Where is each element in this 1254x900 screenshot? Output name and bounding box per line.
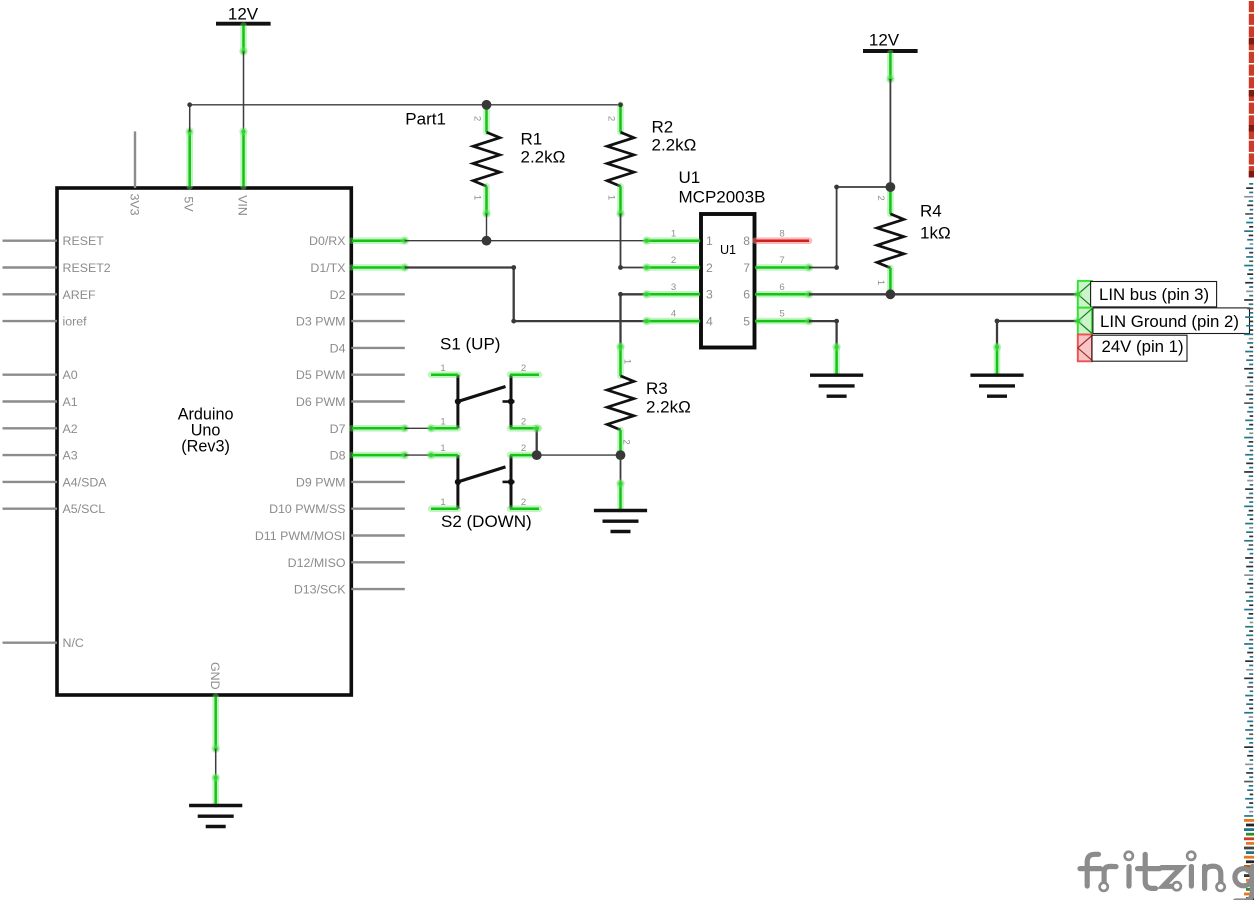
svg-text:D8: D8 — [330, 449, 346, 463]
node LIN Ground flag (pin 2) — [1074, 308, 1250, 335]
svg-text:RESET2: RESET2 — [63, 261, 111, 275]
svg-text:D1/TX: D1/TX — [310, 261, 345, 275]
wire U1 pin 7 to R4 top node — [809, 185, 890, 270]
resistor R4 1k — [875, 187, 950, 294]
junction node S2 pin 2 — [532, 450, 542, 460]
fritzing watermark logo — [1080, 852, 1252, 900]
switch S1 (UP) — [431, 335, 539, 429]
svg-text:1: 1 — [440, 497, 445, 508]
svg-text:3: 3 — [706, 288, 713, 302]
svg-text:1: 1 — [622, 359, 633, 364]
svg-text:1: 1 — [706, 234, 713, 248]
svg-text:D13/SCK: D13/SCK — [294, 583, 346, 597]
svg-text:R1: R1 — [521, 130, 543, 149]
ground symbol under Arduino GND — [189, 773, 242, 826]
wire GND to ground — [215, 749, 217, 778]
U1 pin 3 stub — [642, 282, 700, 299]
resistor R1 2.2k — [472, 105, 566, 218]
U1 pin 2 stub — [642, 255, 700, 272]
svg-text:R4: R4 — [920, 202, 942, 221]
svg-text:1: 1 — [472, 195, 483, 200]
wire R1 junction to U1 pin 1 — [487, 240, 647, 242]
Arduino pin D1/TX green stub — [352, 263, 409, 271]
resistor R3 2.2k — [607, 342, 691, 455]
svg-text:2.2kΩ: 2.2kΩ — [646, 398, 691, 417]
svg-text:6: 6 — [743, 288, 750, 302]
svg-text:D0/RX: D0/RX — [309, 234, 346, 248]
power symbol 12V (right supply) — [863, 31, 918, 84]
svg-text:2: 2 — [605, 116, 616, 121]
node LIN bus flag (pin 3) — [1074, 281, 1217, 308]
svg-text:N/C: N/C — [63, 636, 84, 650]
U1 pin 8 stub (red unrouted) — [756, 228, 810, 240]
U1 pin 6 stub — [755, 282, 813, 299]
svg-text:2: 2 — [521, 443, 526, 454]
svg-text:D7: D7 — [330, 422, 346, 436]
junction node R4 top — [886, 182, 896, 192]
svg-text:7: 7 — [743, 261, 750, 275]
wire 12V to VIN — [243, 52, 245, 132]
svg-text:S2 (DOWN): S2 (DOWN) — [441, 512, 532, 531]
svg-text:D11 PWM/MOSI: D11 PWM/MOSI — [255, 529, 346, 543]
ground symbol under U1 pin 5 — [810, 343, 863, 396]
wire R1 bottom lead to D0/RX net — [486, 214, 488, 241]
svg-text:2.2kΩ: 2.2kΩ — [521, 148, 566, 167]
node bend R2 top on rail — [618, 102, 623, 107]
svg-text:4: 4 — [706, 315, 713, 329]
svg-text:2: 2 — [706, 261, 713, 275]
junction node on D0/RX net — [482, 236, 492, 246]
U1 pin 1 stub — [642, 228, 700, 245]
svg-text:D9 PWM: D9 PWM — [296, 475, 346, 489]
svg-text:A5/SCL: A5/SCL — [63, 502, 106, 516]
svg-text:LIN Ground (pin 2): LIN Ground (pin 2) — [1100, 312, 1239, 331]
svg-text:8: 8 — [779, 228, 784, 239]
svg-text:RESET: RESET — [63, 234, 105, 248]
U1 pin 4 stub — [642, 309, 700, 326]
svg-text:5V: 5V — [182, 196, 196, 212]
svg-text:12V: 12V — [869, 31, 900, 50]
svg-text:U1: U1 — [720, 243, 736, 257]
svg-text:D3 PWM: D3 PWM — [296, 315, 346, 329]
Arduino Uno (Rev3) module body — [57, 188, 351, 695]
wire D0/RX to R1 junction — [405, 240, 487, 242]
node bend at 5V rail corner — [187, 102, 192, 107]
svg-text:D10 PWM/SS: D10 PWM/SS — [269, 502, 345, 516]
Arduino VIN pin stub — [236, 127, 250, 216]
svg-text:5: 5 — [743, 315, 750, 329]
svg-text:A1: A1 — [63, 395, 78, 409]
wire R3 node to ground — [620, 455, 622, 483]
svg-text:GND: GND — [208, 662, 222, 690]
svg-text:1: 1 — [875, 280, 886, 285]
svg-text:D5 PWM: D5 PWM — [296, 368, 346, 382]
svg-text:MCP2003B: MCP2003B — [679, 188, 766, 207]
Arduino pin D8 green stub — [352, 451, 409, 459]
U1 pin 5 stub — [755, 309, 813, 326]
svg-text:R2: R2 — [652, 118, 674, 137]
wire switch node to R3 bottom — [537, 454, 621, 456]
svg-text:D2: D2 — [330, 288, 346, 302]
node 24V flag (pin 1) — [1078, 335, 1187, 362]
svg-text:3V3: 3V3 — [127, 193, 141, 215]
svg-text:S1 (UP): S1 (UP) — [440, 335, 500, 354]
svg-text:2: 2 — [472, 116, 483, 121]
svg-text:A0: A0 — [63, 368, 78, 382]
svg-text:Part1: Part1 — [405, 110, 446, 129]
switch S2 (DOWN) — [431, 443, 539, 531]
svg-text:6: 6 — [779, 282, 784, 293]
svg-text:12V: 12V — [228, 5, 259, 24]
ground symbol for LIN Ground — [970, 343, 1023, 396]
svg-text:1: 1 — [671, 228, 676, 239]
wire U1 pin 5 to ground — [809, 319, 839, 347]
wire rail 5V to R1 — [190, 104, 487, 106]
wire S1 pin 2 down to S2 pin 2 node — [533, 424, 541, 455]
wire LIN Ground flag to ground — [995, 319, 1078, 347]
svg-text:7: 7 — [779, 255, 784, 266]
wire D7 to S1 pin 1 — [405, 424, 435, 432]
resistor R2 2.2k — [605, 105, 696, 218]
svg-text:D12/MISO: D12/MISO — [288, 556, 346, 570]
wire U1 pin 6 to LIN bus flag — [809, 293, 1078, 295]
svg-text:1: 1 — [605, 195, 616, 200]
svg-text:2: 2 — [875, 195, 886, 200]
ground symbol under R3 — [594, 479, 647, 531]
svg-text:A4/SDA: A4/SDA — [63, 475, 108, 489]
connector part clipped at right edge — [1244, 1, 1254, 900]
Arduino GND pin stub — [208, 662, 222, 753]
svg-text:VIN: VIN — [236, 195, 250, 216]
wire R2 bottom to U1 pin 2 — [618, 214, 646, 270]
wire 12V right to R4 top node — [889, 79, 891, 187]
svg-text:2: 2 — [521, 416, 526, 427]
Arduino left pin stubs (unconnected, grey) — [3, 234, 111, 650]
svg-text:ioref: ioref — [63, 315, 88, 329]
svg-text:2: 2 — [521, 497, 526, 508]
svg-text:2.2kΩ: 2.2kΩ — [652, 136, 697, 155]
svg-text:24V (pin 1): 24V (pin 1) — [1102, 337, 1184, 356]
wire D8 to S2 pin 1 — [405, 451, 435, 459]
Arduino pin D0/RX green stub — [352, 237, 409, 245]
svg-text:1kΩ: 1kΩ — [920, 224, 951, 243]
power symbol 12V (left supply) — [216, 5, 271, 56]
wire 5V up to rail — [189, 105, 191, 132]
U1 pin 7 stub — [755, 255, 813, 272]
junction node R4 bottom — [886, 289, 896, 299]
svg-text:D6 PWM: D6 PWM — [296, 395, 346, 409]
svg-text:8: 8 — [743, 234, 750, 248]
svg-text:2: 2 — [671, 255, 676, 266]
wire rail R1 to R2 — [487, 104, 621, 106]
Arduino right pin stubs (grey unconnected) — [255, 288, 405, 597]
junction node R3 bottom — [616, 450, 626, 460]
svg-text:(Rev3): (Rev3) — [181, 438, 230, 456]
svg-text:D4: D4 — [330, 341, 346, 355]
Arduino 5V pin stub — [182, 127, 196, 212]
Arduino 3V3 stub (grey) — [127, 131, 141, 215]
svg-text:5: 5 — [779, 309, 784, 320]
svg-text:A2: A2 — [63, 422, 78, 436]
svg-text:R3: R3 — [646, 379, 668, 398]
svg-text:1: 1 — [440, 363, 445, 374]
Arduino right pin labels for connected pins — [309, 234, 346, 462]
svg-text:1: 1 — [440, 443, 445, 454]
svg-text:A3: A3 — [63, 449, 78, 463]
svg-text:3: 3 — [671, 282, 676, 293]
wire U1 pin 3 to R3 top — [618, 292, 646, 347]
svg-text:1: 1 — [440, 416, 445, 427]
svg-text:LIN bus (pin 3): LIN bus (pin 3) — [1099, 285, 1209, 304]
svg-text:4: 4 — [671, 309, 677, 320]
label Part1 — [405, 110, 446, 129]
junction node R1 top on rail — [482, 100, 492, 110]
svg-text:2: 2 — [521, 363, 526, 374]
svg-text:U1: U1 — [679, 168, 701, 187]
Arduino pin D7 green stub — [352, 424, 409, 432]
wire D1/TX to U1 pin 4 — [405, 265, 647, 323]
svg-text:2: 2 — [621, 439, 632, 444]
svg-text:AREF: AREF — [63, 288, 96, 302]
IC U1 MCP2003B body — [679, 168, 766, 348]
